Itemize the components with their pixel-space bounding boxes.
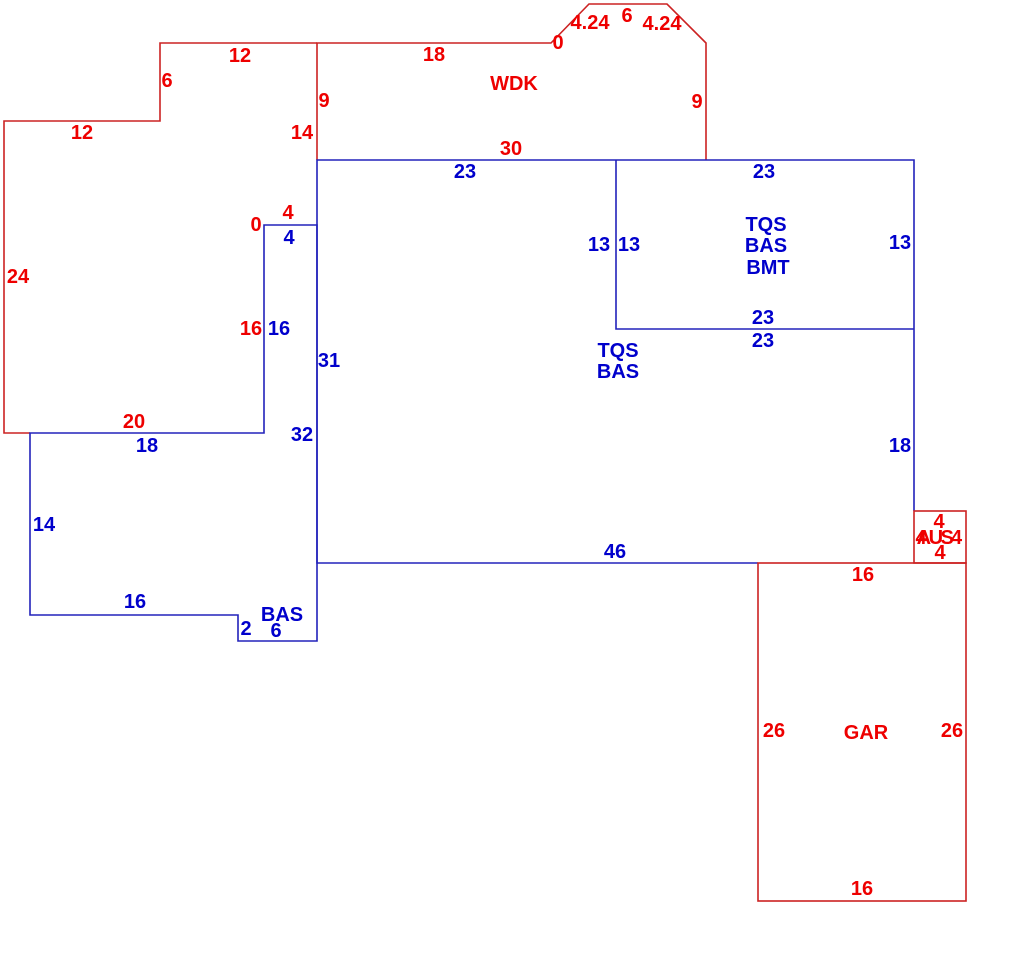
svg-text:18: 18: [889, 435, 911, 457]
svg-text:BAS: BAS: [597, 361, 639, 383]
svg-text:24: 24: [7, 266, 30, 288]
svg-text:TQS: TQS: [597, 340, 638, 362]
svg-text:31: 31: [318, 350, 340, 372]
svg-text:16: 16: [124, 591, 146, 613]
svg-text:14: 14: [291, 122, 314, 144]
svg-text:BMT: BMT: [746, 257, 789, 279]
svg-text:2: 2: [240, 618, 251, 640]
svg-text:4: 4: [934, 542, 946, 564]
svg-text:16: 16: [852, 564, 874, 586]
svg-text:9: 9: [691, 91, 702, 113]
svg-text:16: 16: [851, 878, 873, 900]
BAS main outline: [317, 160, 914, 563]
svg-text:0: 0: [250, 214, 261, 236]
BAS lower outline: [30, 225, 317, 641]
svg-text:13: 13: [618, 234, 640, 256]
svg-text:13: 13: [889, 232, 911, 254]
svg-text:12: 12: [71, 122, 93, 144]
svg-text:16: 16: [240, 318, 262, 340]
svg-text:9: 9: [318, 90, 329, 112]
svg-text:4.24: 4.24: [643, 13, 683, 35]
PTO outline: [4, 43, 317, 433]
svg-text:GAR: GAR: [844, 722, 889, 744]
svg-text:26: 26: [941, 720, 963, 742]
svg-text:6: 6: [621, 5, 632, 27]
WDK outline: [317, 4, 706, 160]
svg-text:18: 18: [136, 435, 158, 457]
svg-text:6: 6: [270, 620, 281, 642]
svg-text:26: 26: [763, 720, 785, 742]
svg-text:20: 20: [123, 411, 145, 433]
svg-text:BAS: BAS: [261, 604, 303, 626]
svg-text:4.24: 4.24: [571, 12, 611, 34]
svg-text:12: 12: [229, 45, 251, 67]
svg-text:18: 18: [423, 44, 445, 66]
TQS divider: [616, 160, 914, 329]
svg-text:13: 13: [588, 234, 610, 256]
svg-text:4: 4: [283, 227, 295, 249]
svg-text:TQS: TQS: [745, 214, 786, 236]
svg-text:0: 0: [552, 32, 563, 54]
svg-text:4: 4: [915, 527, 927, 549]
AUS outline: [914, 511, 966, 563]
svg-text:14: 14: [33, 514, 56, 536]
svg-text:16: 16: [268, 318, 290, 340]
svg-text:BAS: BAS: [745, 235, 787, 257]
svg-text:23: 23: [454, 161, 476, 183]
svg-text:23: 23: [753, 161, 775, 183]
GAR outline: [758, 563, 966, 901]
svg-text:30: 30: [500, 138, 522, 160]
svg-text:4: 4: [951, 527, 963, 549]
svg-text:4: 4: [282, 202, 294, 224]
svg-text:WDK: WDK: [490, 73, 538, 95]
svg-text:23: 23: [752, 307, 774, 329]
svg-text:23: 23: [752, 330, 774, 352]
svg-text:46: 46: [604, 541, 626, 563]
svg-text:6: 6: [161, 70, 172, 92]
svg-text:32: 32: [291, 424, 313, 446]
